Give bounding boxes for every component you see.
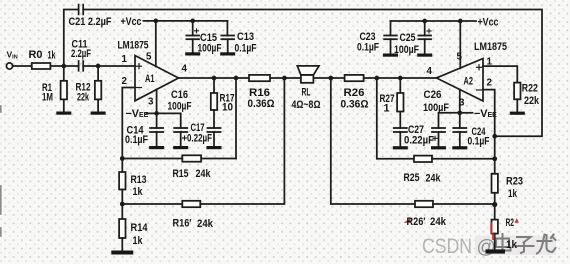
svg-text:CSDN: CSDN [422, 235, 472, 258]
label R0 1k [29, 49, 57, 62]
ground C16 [173, 146, 188, 149]
wire R25 to pin2 node [432, 158, 495, 160]
svg-text:C21 2.2µF: C21 2.2µF [69, 16, 112, 28]
pin number 5 A1 [146, 52, 152, 63]
op-amp A2 [437, 59, 484, 102]
svg-text:2: 2 [122, 76, 128, 87]
resistor R13 [119, 159, 125, 205]
wire R15 vertical [235, 78, 237, 159]
svg-text:R26: R26 [344, 87, 365, 99]
label +Vcc left [121, 16, 142, 28]
capacitor C14 [150, 113, 163, 146]
ground C25 [417, 54, 432, 57]
capacitor C13 [221, 21, 234, 52]
svg-text:VIN: VIN [7, 50, 18, 61]
svg-text:1k: 1k [133, 186, 144, 198]
plus C16 [183, 136, 187, 140]
capacitor C11 [79, 61, 84, 71]
label +Vcc right [478, 17, 499, 29]
wire pin5 A2 [459, 21, 461, 68]
svg-text:R0: R0 [29, 49, 43, 61]
label R23 1k [506, 175, 523, 200]
resistor R26' [415, 201, 433, 207]
watermark CSDN [422, 235, 472, 258]
label R26 0.36 [341, 87, 369, 111]
label LM1875 A1 [118, 40, 149, 52]
label R27 1 [380, 93, 395, 115]
svg-text:R25: R25 [404, 172, 420, 184]
wire pin1 A2 to R22 [483, 66, 517, 83]
red mark R26' [404, 218, 411, 223]
svg-text:0.1µF: 0.1µF [125, 134, 148, 146]
wire +Vcc right rail [391, 20, 477, 22]
watermark glyph zi [516, 237, 534, 253]
label R12 22k [76, 82, 91, 104]
svg-text:R16′: R16′ [173, 218, 192, 230]
input terminal [6, 63, 12, 69]
node pin5 A2 on Vcc [458, 19, 463, 24]
capacitor C24 [453, 113, 466, 146]
svg-text:5: 5 [146, 52, 152, 63]
ground C15 [185, 52, 200, 55]
wire +Vcc left rail [144, 20, 228, 22]
ground R12 [91, 112, 106, 115]
svg-text:100µF: 100µF [168, 101, 192, 113]
svg-text:0.1µF: 0.1µF [235, 43, 257, 55]
label C15 100uF [198, 32, 222, 55]
node R25 pin2 junction [492, 156, 497, 161]
resistor R0 [32, 63, 51, 69]
label RL 4-8 ohm [292, 87, 321, 112]
svg-text:22k: 22k [77, 92, 90, 104]
svg-text:0.22µF: 0.22µF [187, 133, 212, 145]
label R1 1M [42, 82, 53, 104]
wire -Vee stub A2 [460, 112, 473, 114]
capacitor C27 [394, 128, 407, 146]
capacitor C23 [384, 21, 397, 54]
resistor R2' [492, 205, 498, 250]
svg-text:3: 3 [459, 98, 465, 109]
svg-text:A1: A1 [145, 73, 155, 85]
label R26' 24k [407, 216, 447, 228]
svg-text:R23: R23 [506, 175, 523, 187]
label R16 0.36 [248, 87, 275, 110]
svg-text:R2: R2 [506, 217, 515, 229]
watermark glyph long [537, 235, 556, 254]
svg-text:C16: C16 [171, 89, 188, 101]
node R13 R14 junction [120, 202, 125, 207]
svg-text:4: 4 [182, 64, 188, 75]
ground C26 [431, 146, 446, 149]
wire R26' to node [433, 203, 495, 205]
resistor R15 [182, 155, 201, 161]
node R27 tap [398, 76, 403, 81]
node C11 right junction [96, 64, 101, 69]
wire R15 line [201, 158, 236, 160]
label C23 0.1uF [357, 31, 379, 54]
plus C26 [433, 136, 437, 140]
svg-text:C25: C25 [400, 32, 416, 44]
plus input mark A2 [477, 65, 482, 70]
svg-text:0.1µF: 0.1µF [468, 136, 490, 148]
label LM1875 A2 [474, 41, 507, 53]
label R13 1k [131, 174, 147, 198]
svg-text:1M: 1M [42, 92, 53, 104]
wire pin3 A1 [156, 90, 158, 114]
svg-text:−VEE: −VEE [474, 108, 497, 120]
label C16 100uF [168, 89, 192, 113]
label C21 2.2uF [69, 16, 112, 28]
op-amp A1 [135, 56, 179, 101]
watermark highlight box [475, 236, 556, 256]
pin number 2 A2 [487, 78, 493, 89]
wire input to R0 [13, 65, 32, 67]
label C25 100uF [394, 32, 419, 56]
label C13 0.1uF [235, 31, 257, 55]
label R25 24k [404, 172, 442, 184]
node pin5 A1 on Vcc [153, 19, 158, 24]
wire R15 to pin2 node [122, 158, 182, 160]
svg-text:C26: C26 [424, 89, 442, 101]
capacitor C25 [418, 21, 431, 54]
ground C13 [220, 52, 235, 55]
ground R2' [486, 249, 506, 253]
svg-text:1: 1 [384, 103, 390, 115]
svg-text:100µF: 100µF [423, 102, 449, 114]
resistor R1 [61, 66, 67, 112]
minus input mark A2 [477, 89, 482, 91]
wire pin2 A1 feedback [122, 88, 135, 159]
node R17 tap [212, 76, 217, 81]
svg-text:100µF: 100µF [394, 44, 419, 56]
ground R22 [510, 112, 525, 115]
svg-text:R22: R22 [522, 83, 538, 95]
svg-text:0.1µF: 0.1µF [357, 42, 379, 54]
minus input mark A1 [137, 87, 142, 89]
label R15 24k [173, 168, 212, 180]
svg-text:3: 3 [148, 97, 154, 108]
resistor R12 [95, 66, 101, 112]
svg-text:R15: R15 [173, 168, 189, 180]
pin number 3 A2 [459, 98, 465, 109]
node R15 tap [234, 76, 239, 81]
label C26 100uF [423, 89, 449, 114]
pin number 1 A1 [122, 54, 128, 65]
label Vin [7, 50, 18, 61]
node C21 tap [492, 134, 497, 139]
node R25 tap [374, 76, 379, 81]
resistor R22 [514, 83, 520, 112]
wire R25 vertical [377, 78, 414, 159]
svg-text:R13: R13 [131, 174, 147, 186]
svg-text:1k: 1k [508, 188, 518, 200]
label C17 0.22uF [187, 122, 212, 145]
ground C27 [393, 146, 408, 149]
svg-text:24k: 24k [426, 172, 442, 184]
svg-text:R14: R14 [131, 222, 148, 234]
node speaker right [328, 76, 333, 81]
resistor R17 [211, 78, 217, 128]
svg-text:1: 1 [122, 54, 128, 65]
label R14 1k [131, 222, 148, 247]
label -Vee A1 [126, 108, 149, 120]
node pin3 A1 [154, 111, 159, 116]
plus C15 [195, 29, 199, 33]
ground R1 [56, 112, 71, 115]
svg-text:0.22µF: 0.22µF [404, 135, 434, 147]
node pin2 junction [120, 156, 125, 161]
svg-text:4Ω~8Ω: 4Ω~8Ω [292, 99, 321, 111]
label A2 [464, 76, 474, 88]
wire C11 to pin1 A1 [83, 65, 135, 67]
label C14 0.1uF [125, 124, 148, 146]
svg-text:4: 4 [427, 66, 433, 77]
svg-text:24k: 24k [430, 216, 447, 228]
wire R0 to C11 [50, 65, 78, 67]
resistor R27 [397, 78, 403, 128]
speaker RL [297, 66, 319, 83]
svg-text:+Vcc: +Vcc [121, 16, 142, 28]
ground C24 [452, 146, 467, 149]
svg-text:LM1875: LM1875 [474, 41, 507, 53]
red mark R2' resistor [491, 223, 493, 241]
capacitor C15 [186, 21, 199, 52]
svg-text:24k: 24k [197, 218, 214, 230]
svg-text:1k: 1k [133, 235, 144, 247]
pin number 3 A1 [148, 97, 154, 108]
svg-text:2: 2 [487, 78, 493, 89]
svg-text:1k: 1k [48, 50, 57, 62]
label C27 0.22uF [404, 124, 434, 147]
resistor R16 [249, 75, 270, 81]
node input junction [61, 64, 66, 69]
ground R14 [111, 251, 133, 255]
pin number 1 A2 [487, 57, 493, 68]
watermark glyph dian [496, 234, 511, 251]
resistor R16' [182, 201, 200, 207]
pin number 5 A2 [457, 52, 463, 63]
red mark R2' label [515, 218, 519, 223]
svg-text:10: 10 [222, 101, 233, 113]
svg-text:0.36Ω: 0.36Ω [248, 98, 275, 110]
node speaker left [282, 76, 287, 81]
resistor R25 [414, 156, 432, 162]
output rail A1 to A2 [179, 77, 437, 79]
label R2' 1k [506, 217, 518, 251]
capacitor C17 [208, 128, 221, 146]
wire pin3 A2 [459, 90, 461, 113]
svg-text:C13: C13 [237, 31, 254, 43]
pin number 4 A2 [427, 66, 433, 77]
svg-text:@: @ [477, 237, 496, 258]
wire pin5 A1 [155, 21, 157, 67]
resistor R26 [345, 75, 364, 81]
plus input mark A1 [137, 64, 142, 69]
pin number 4 A1 [182, 64, 188, 75]
svg-text:+Vcc: +Vcc [478, 17, 499, 29]
plus C25 [427, 29, 431, 33]
capacitor C21 [79, 5, 84, 15]
svg-text:−VEE: −VEE [126, 108, 149, 120]
svg-text:2.2µF: 2.2µF [71, 48, 91, 60]
label R22 22k [522, 83, 540, 108]
svg-text:A2: A2 [464, 76, 474, 88]
svg-text:24k: 24k [196, 168, 212, 180]
wire R16' to rail [200, 78, 284, 204]
svg-text:1k: 1k [506, 239, 518, 251]
ground C23 [383, 54, 398, 57]
wire -Vee stub A1 [147, 112, 157, 114]
svg-text:0.36Ω: 0.36Ω [341, 99, 369, 111]
label -Vee A2 [474, 108, 497, 120]
label R17 10 [220, 92, 235, 113]
label C24 0.1uF [468, 126, 490, 148]
ground C17 [207, 146, 222, 149]
wire C21 top line to right side [83, 10, 542, 137]
svg-text:LM1875: LM1875 [118, 40, 149, 52]
svg-text:5: 5 [457, 52, 463, 63]
node C25 on Vcc [422, 19, 427, 24]
wire C21 left leg [64, 10, 79, 67]
capacitor C26 [432, 113, 460, 146]
svg-text:RL: RL [302, 87, 311, 99]
scan artifact left edge [0, 106, 2, 236]
label A1 [145, 73, 155, 85]
node R23 R2' junction [492, 202, 497, 207]
wire pin2 A2 feedback [483, 90, 495, 159]
wire R16' line [122, 203, 182, 205]
ground C14 [149, 146, 164, 149]
capacitor C16 [157, 113, 188, 146]
node C15 on Vcc [190, 19, 195, 24]
node pin3 A2 [457, 110, 462, 115]
svg-text:100µF: 100µF [198, 42, 222, 54]
svg-text:R26′: R26′ [407, 216, 426, 228]
pin number 2 A1 [122, 76, 128, 87]
resistor R23 [492, 159, 498, 205]
resistor R14 [119, 204, 125, 251]
label R16' 24k [173, 218, 214, 230]
wire R26' drop [331, 78, 415, 204]
label C11 2.2uF [71, 39, 91, 61]
svg-text:22k: 22k [524, 95, 540, 107]
